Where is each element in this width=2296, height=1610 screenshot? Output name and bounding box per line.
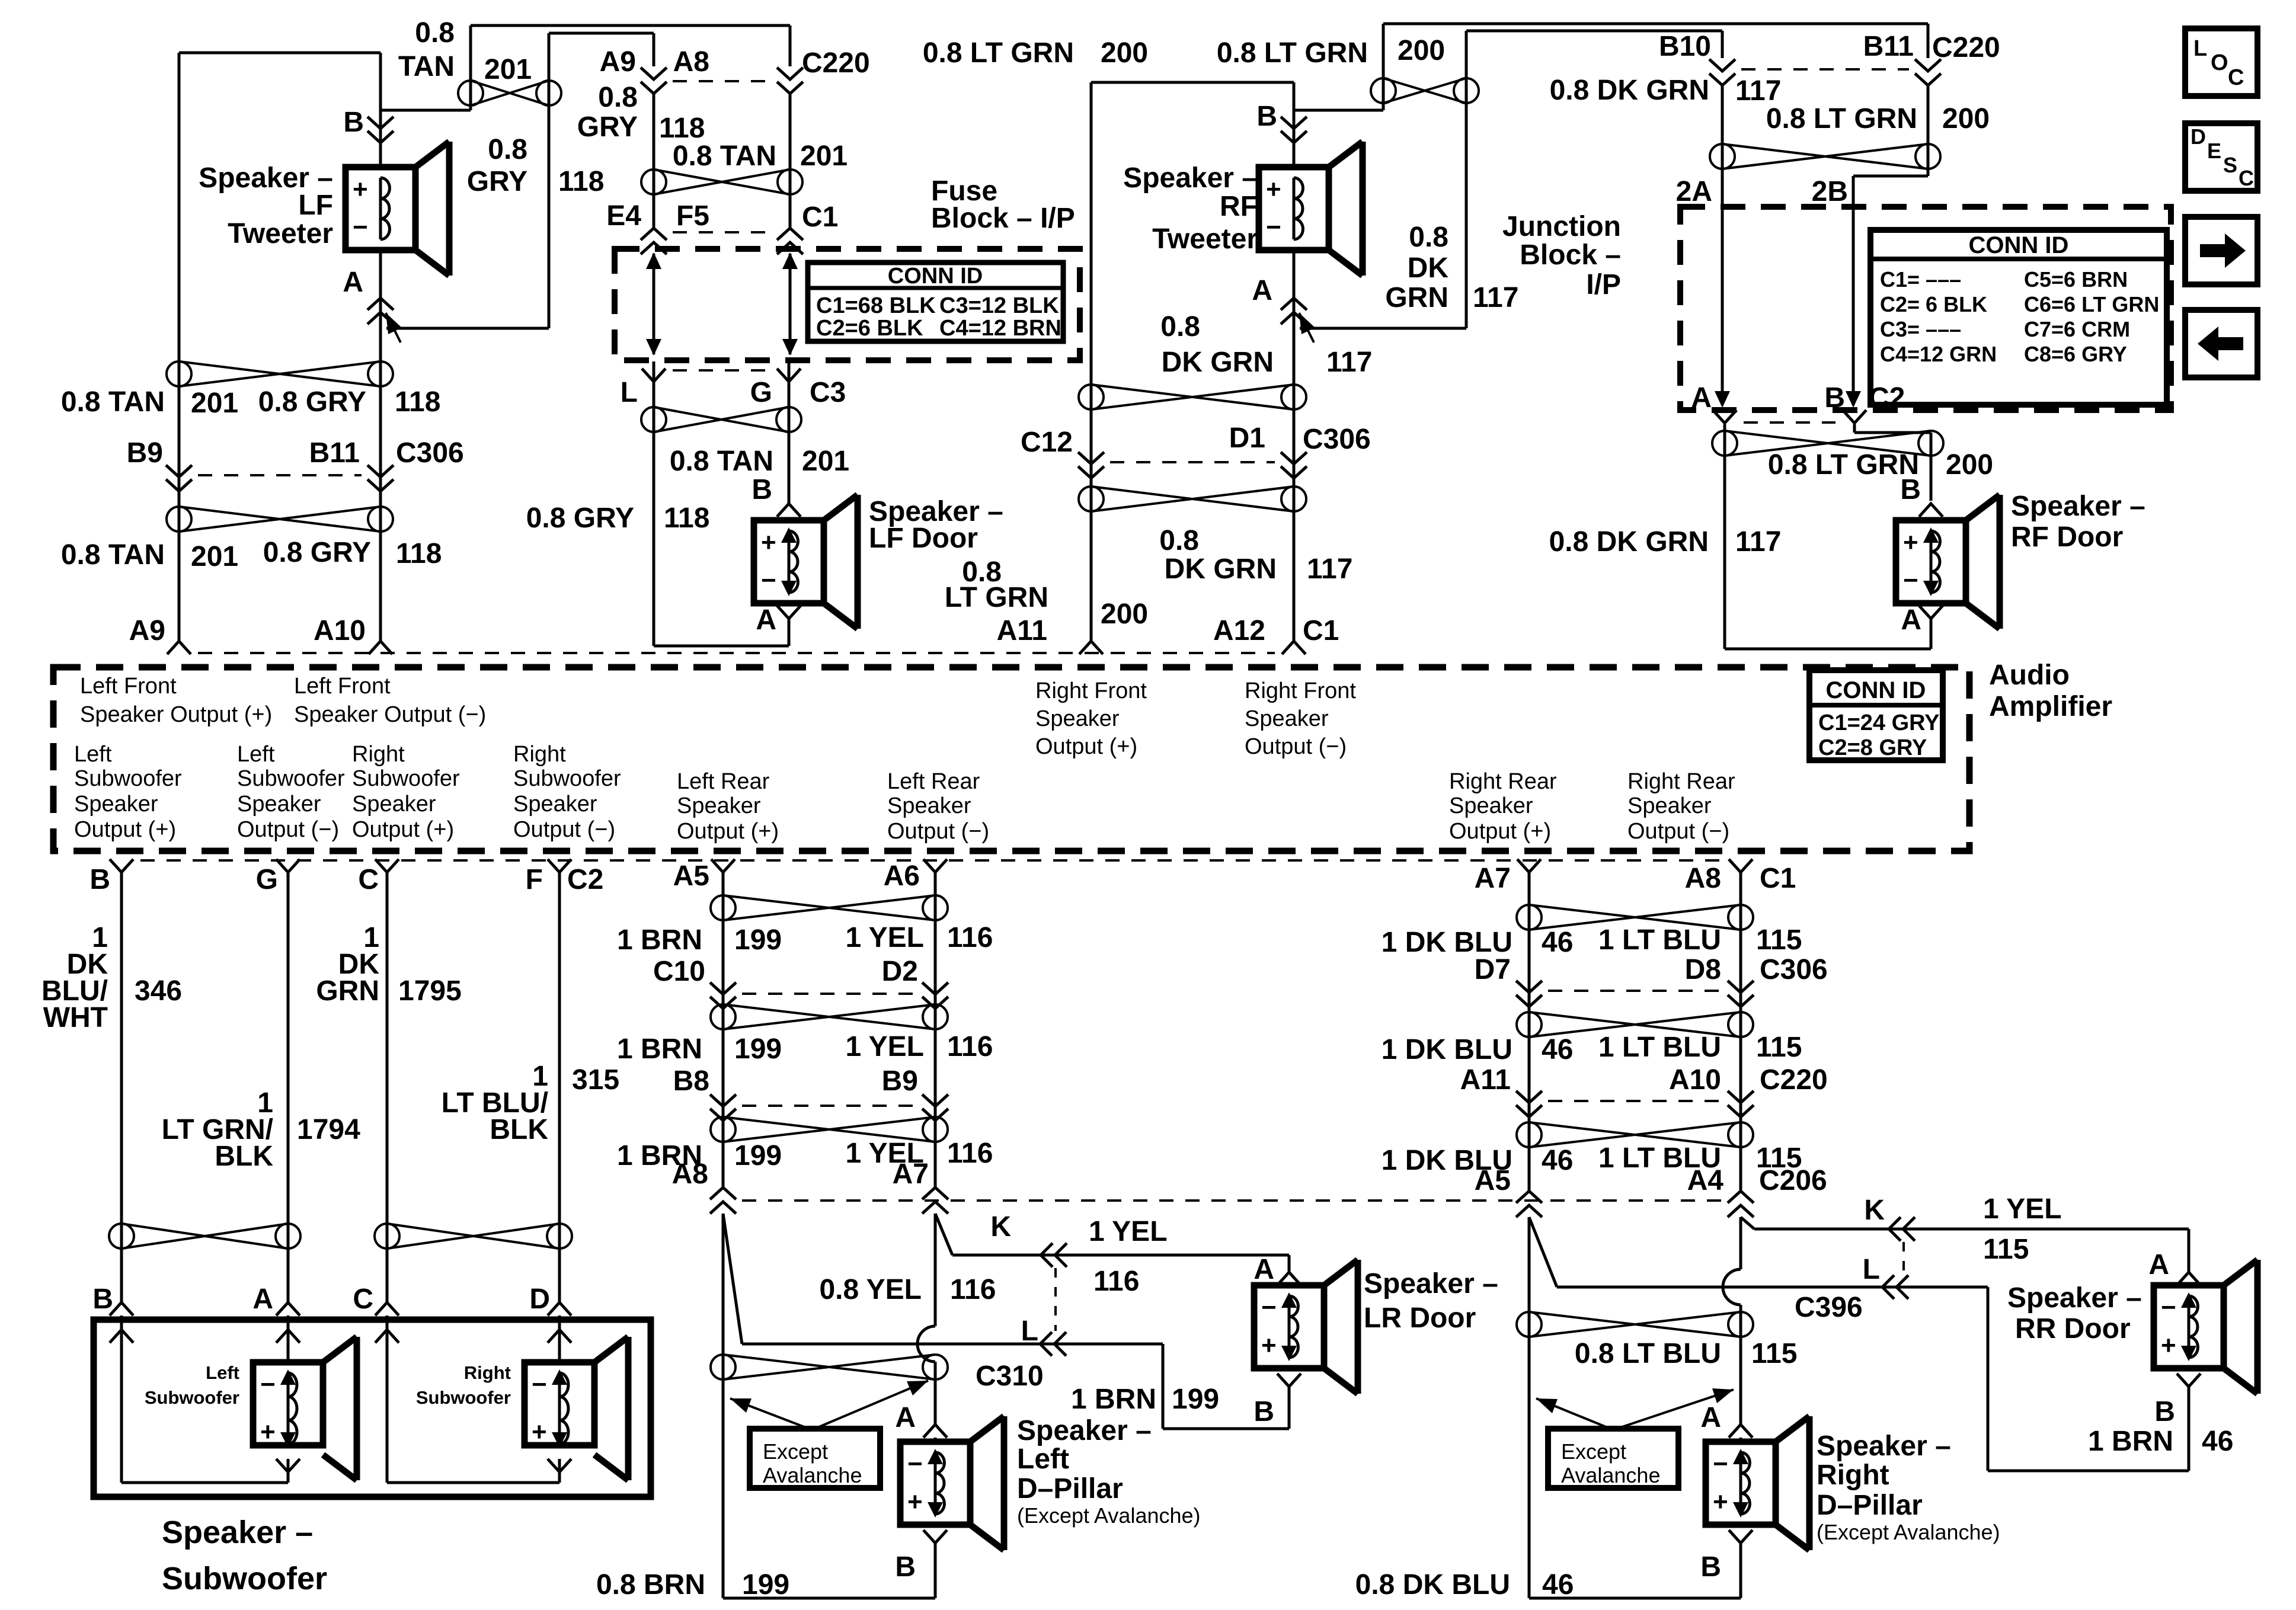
svg-text:RF: RF — [1220, 191, 1258, 222]
svg-text:Avalanche: Avalanche — [763, 1463, 862, 1487]
svg-text:0.8 GRY: 0.8 GRY — [258, 386, 366, 418]
svg-text:115: 115 — [1751, 1338, 1797, 1369]
svg-text:A10: A10 — [314, 615, 366, 646]
wire YEL down to D-pillar — [934, 1214, 937, 1425]
svg-text:Except: Except — [1561, 1439, 1626, 1464]
svg-text:+: + — [2161, 1331, 2176, 1360]
svg-text:C2: C2 — [567, 864, 603, 895]
svg-text:C12: C12 — [1021, 427, 1073, 458]
wire A8 to fuse F5 (0.8 TAN 201) — [789, 94, 792, 228]
svg-text:S: S — [2223, 153, 2237, 177]
svg-text:C2: C2 — [1869, 382, 1905, 414]
wire L to LF door A (0.8 GRY 118) — [654, 382, 789, 646]
svg-text:C310: C310 — [976, 1361, 1044, 1392]
svg-text:Left: Left — [1017, 1443, 1069, 1475]
CONN ID table junction block — [1870, 230, 2167, 405]
wire branch LF - to C220 A9 — [386, 33, 654, 328]
fuse block internal wire F5-G — [782, 252, 798, 356]
svg-text:Speaker –: Speaker – — [1364, 1268, 1498, 1299]
svg-text:117: 117 — [1326, 347, 1372, 378]
label 1 DK GRN 1795 — [316, 922, 461, 1007]
amp label right rear - — [1627, 769, 1735, 844]
amp label right rear + — [1449, 769, 1557, 844]
svg-text:Output (+): Output (+) — [1035, 734, 1137, 759]
label C310 — [976, 1361, 1044, 1392]
svg-text:Left Front: Left Front — [80, 674, 177, 699]
left arrow box — [2185, 310, 2257, 377]
label L right — [1863, 1254, 1880, 1285]
svg-text:201: 201 — [800, 140, 848, 172]
connector pin A LF tweeter — [343, 267, 394, 324]
svg-text:C306: C306 — [1760, 954, 1828, 985]
svg-text:115: 115 — [1756, 924, 1802, 956]
svg-text:B11: B11 — [1863, 31, 1914, 62]
labels row2 RR — [1382, 1032, 1802, 1065]
svg-text:1795: 1795 — [398, 975, 462, 1007]
label Speaker - LR Door — [1364, 1268, 1498, 1334]
svg-text:Output (−): Output (−) — [237, 817, 339, 842]
svg-text:K: K — [990, 1211, 1011, 1243]
svg-text:1 YEL: 1 YEL — [845, 1031, 924, 1062]
svg-text:+: + — [907, 1487, 923, 1516]
speaker RR Door — [2154, 1260, 2257, 1394]
svg-text:L: L — [1863, 1254, 1880, 1285]
svg-text:46: 46 — [1542, 1145, 1573, 1176]
svg-text:Subwoofer: Subwoofer — [237, 766, 345, 791]
svg-text:C3= –––: C3= ––– — [1880, 317, 1961, 341]
svg-text:C: C — [2239, 166, 2254, 190]
wire sub D inside — [548, 1315, 571, 1362]
svg-text:I/P: I/P — [1586, 269, 1621, 300]
svg-text:201: 201 — [802, 446, 849, 477]
svg-text:GRN: GRN — [1385, 282, 1448, 313]
svg-text:199: 199 — [734, 1033, 782, 1065]
svg-text:L: L — [2193, 36, 2207, 61]
speaker LR Door — [1254, 1260, 1358, 1394]
svg-text:B: B — [2154, 1396, 2175, 1427]
svg-text:Amplifier: Amplifier — [1989, 691, 2112, 722]
speaker Right Subwoofer — [525, 1337, 628, 1480]
labels row1 RR — [1382, 924, 1802, 958]
label Speaker - Subwoofer — [162, 1515, 327, 1596]
amp pins A9 A10 — [129, 615, 1275, 654]
svg-text:−: − — [1713, 1449, 1728, 1478]
wire left rear - (1 YEL 116) — [934, 873, 937, 1188]
audio amplifier dashed box — [53, 667, 1969, 851]
svg-text:GRY: GRY — [467, 166, 527, 197]
svg-text:C: C — [353, 1283, 373, 1315]
svg-text:Output (+): Output (+) — [677, 819, 779, 844]
svg-text:CONN ID: CONN ID — [888, 264, 983, 289]
svg-text:0.8: 0.8 — [1160, 311, 1200, 343]
label 0.8 LT GRN 200 branch top — [1217, 35, 1445, 69]
svg-text:1 LT BLU: 1 LT BLU — [1598, 1032, 1721, 1063]
svg-text:LF: LF — [298, 190, 333, 221]
twisted pair D-pillar right — [1517, 1312, 1753, 1337]
svg-text:DK GRN: DK GRN — [1162, 347, 1274, 378]
svg-text:C1= –––: C1= ––– — [1880, 267, 1961, 292]
svg-text:200: 200 — [1101, 37, 1148, 69]
twisted pair RR 2 — [1517, 1012, 1753, 1037]
svg-text:0.8 LT GRN: 0.8 LT GRN — [923, 37, 1074, 69]
svg-text:1 BRN: 1 BRN — [1071, 1384, 1156, 1415]
svg-text:200: 200 — [1398, 35, 1445, 66]
svg-text:D–Pillar: D–Pillar — [1817, 1490, 1923, 1521]
svg-text:Right Front: Right Front — [1245, 678, 1356, 703]
label 0.8 GRY 118 under A9 — [577, 82, 705, 144]
twisted pair RF pair lower — [1079, 486, 1306, 511]
svg-text:Subwoofer: Subwoofer — [74, 766, 182, 791]
svg-text:117: 117 — [1473, 282, 1518, 313]
wire L row to LR door B — [1163, 1344, 1289, 1429]
svg-text:B: B — [1256, 101, 1277, 132]
amp pins A7 A8 C1 — [1475, 859, 1796, 894]
svg-text:Speaker Output (+): Speaker Output (+) — [80, 702, 272, 727]
svg-text:1 BRN: 1 BRN — [617, 1033, 702, 1065]
svg-text:Speaker: Speaker — [1035, 706, 1120, 731]
svg-text:B: B — [89, 864, 110, 895]
speaker Left D-Pillar — [900, 1416, 1004, 1550]
label 0.8 DK GRN 117 door — [1549, 526, 1782, 558]
label 0.8 TAN 201 lower row 2 — [61, 539, 238, 572]
svg-text:0.8 LT BLU: 0.8 LT BLU — [1575, 1338, 1721, 1369]
svg-text:1 YEL: 1 YEL — [1089, 1216, 1168, 1247]
svg-text:Tweeter: Tweeter — [228, 218, 333, 249]
svg-text:46: 46 — [1542, 927, 1573, 958]
connector pin B RR door — [2154, 1374, 2201, 1427]
label 0.8 GRY 118 lower row 2 — [263, 537, 442, 569]
wire LF tweeter - down to amp A10 — [379, 250, 382, 641]
connector L right — [1882, 1275, 1908, 1299]
svg-text:TAN: TAN — [398, 51, 455, 82]
svg-text:Speaker: Speaker — [1449, 793, 1533, 818]
label 0.8 LT GRN 200 lower — [945, 556, 1148, 630]
svg-text:46: 46 — [1542, 1569, 1574, 1601]
svg-text:Left: Left — [74, 742, 112, 767]
svg-text:0.8 TAN: 0.8 TAN — [61, 539, 165, 571]
arrows except avalanche left — [730, 1381, 928, 1430]
except avalanche box left — [750, 1429, 880, 1488]
svg-text:C3=12 BLK: C3=12 BLK — [939, 293, 1059, 318]
amp pins B G C F C2 row — [89, 859, 1722, 895]
svg-text:0.8: 0.8 — [488, 134, 527, 165]
svg-text:118: 118 — [396, 538, 442, 569]
svg-text:B: B — [752, 474, 772, 505]
svg-text:B: B — [343, 107, 364, 138]
amp label left rear + — [677, 769, 779, 844]
label Speaker - RR Door — [2007, 1282, 2142, 1345]
junction block pins 2A 2B — [1676, 176, 1848, 207]
twisted pair right subwoofer — [375, 1224, 572, 1249]
label 0.8 TAN 201 door — [670, 446, 849, 477]
svg-text:115: 115 — [1983, 1234, 2029, 1265]
connector C306 pins C12 D1 — [1021, 422, 1371, 478]
svg-text:LR Door: LR Door — [1364, 1302, 1476, 1334]
svg-text:346: 346 — [135, 975, 182, 1007]
CONN ID table fuse block — [808, 263, 1063, 341]
svg-text:1 YEL: 1 YEL — [1983, 1193, 2062, 1225]
svg-text:DK: DK — [1408, 252, 1449, 284]
svg-text:D2: D2 — [882, 956, 918, 987]
svg-text:0.8 LT GRN: 0.8 LT GRN — [1217, 37, 1368, 69]
svg-text:A11: A11 — [997, 615, 1047, 646]
svg-text:C4=12 GRN: C4=12 GRN — [1880, 342, 1997, 366]
svg-text:Junction: Junction — [1502, 211, 1621, 242]
svg-text:Speaker Output (−): Speaker Output (−) — [294, 702, 486, 727]
twisted pair above fuse block — [641, 169, 802, 194]
connector C2 pins A B — [1691, 382, 1905, 423]
svg-text:A: A — [1253, 1254, 1274, 1285]
label 0.8 GRY 118 lower row 1 — [258, 386, 441, 418]
twisted pair left subwoofer — [109, 1224, 300, 1249]
speaker Left Subwoofer — [253, 1337, 357, 1480]
svg-text:C3: C3 — [810, 377, 846, 408]
svg-text:B9: B9 — [882, 1065, 918, 1097]
svg-text:C5=6 BRN: C5=6 BRN — [2024, 267, 2128, 292]
svg-text:46: 46 — [2202, 1426, 2233, 1457]
svg-text:199: 199 — [734, 1140, 782, 1172]
svg-text:Right Rear: Right Rear — [1627, 769, 1735, 794]
connector L left — [1040, 1332, 1066, 1356]
connector C220 pins A9 A8 — [600, 46, 870, 94]
svg-text:A7: A7 — [1475, 863, 1511, 894]
twisted pair RR 1 — [1517, 905, 1753, 930]
label Speaker - RF Door — [2011, 491, 2145, 553]
svg-text:K: K — [1864, 1195, 1885, 1226]
label Fuse Block - I/P — [931, 175, 1075, 234]
label 0.8 DK GRN 117 branch — [1385, 222, 1518, 313]
hop YEL over L row — [917, 1326, 935, 1362]
twisted pair RR 3 — [1517, 1122, 1753, 1147]
wire RF front + (0.8 LT GRN 200) from amp A11 to tweeter B — [1091, 82, 1294, 641]
label Speaker - RF Tweeter — [1123, 162, 1258, 255]
svg-text:C1: C1 — [1760, 863, 1796, 894]
svg-text:Right: Right — [1817, 1459, 1889, 1491]
wire A4 diagonal to K row — [1741, 1217, 2189, 1272]
svg-text:Except: Except — [763, 1439, 828, 1464]
svg-text:Speaker –: Speaker – — [1017, 1415, 1152, 1446]
wire left subwoofer + (1 DK BLU/WHT 346) — [120, 873, 123, 1302]
svg-text:Tweeter: Tweeter — [1152, 223, 1258, 255]
label Junction Block - I/P — [1502, 211, 1621, 300]
svg-text:118: 118 — [659, 113, 705, 144]
svg-text:RF Door: RF Door — [2011, 521, 2123, 553]
svg-text:C4=12 BRN: C4=12 BRN — [939, 316, 1061, 341]
svg-text:D8: D8 — [1685, 954, 1721, 985]
amp label right subwoofer - — [513, 742, 621, 842]
svg-text:115: 115 — [1756, 1032, 1802, 1063]
svg-text:(Except Avalanche): (Except Avalanche) — [1817, 1520, 2000, 1544]
svg-text:D: D — [2191, 124, 2206, 149]
connector pin B left D-pillar — [895, 1530, 947, 1598]
amp label right front + — [1035, 678, 1147, 759]
label 1 DK BLU/WHT 346 — [41, 922, 182, 1033]
svg-text:L: L — [1021, 1315, 1038, 1347]
wire C2-A down (0.8 DK GRN 117) — [1725, 424, 1931, 649]
wire LT BLU down to D-pillar — [1739, 1217, 1742, 1425]
svg-text:1 LT BLU: 1 LT BLU — [1598, 924, 1721, 956]
svg-text:Output (+): Output (+) — [352, 817, 454, 842]
svg-text:GRN: GRN — [316, 975, 379, 1007]
svg-text:−: − — [907, 1449, 923, 1478]
svg-text:B9: B9 — [127, 437, 163, 469]
svg-text:E4: E4 — [606, 200, 641, 232]
wire branch RF + to B11 — [1294, 24, 1928, 110]
svg-text:C: C — [2228, 65, 2244, 90]
svg-text:Subwoofer: Subwoofer — [352, 766, 460, 791]
svg-text:CONN ID: CONN ID — [1969, 232, 2069, 258]
twisted pair junction top — [1710, 144, 1940, 169]
svg-text:C1: C1 — [1303, 615, 1339, 646]
junction internal wire 2A-A — [1715, 207, 1730, 408]
label Left Subwoofer — [145, 1362, 239, 1408]
svg-text:C2=8 GRY: C2=8 GRY — [1818, 735, 1927, 760]
twisted pair LF pair upper — [167, 361, 393, 386]
svg-text:A10: A10 — [1669, 1064, 1721, 1096]
wire A5 diagonal to L row — [1529, 1217, 1988, 1287]
svg-text:2A: 2A — [1676, 176, 1712, 207]
svg-text:118: 118 — [395, 386, 440, 418]
svg-text:C1: C1 — [802, 201, 838, 233]
arrows except avalanche right — [1536, 1388, 1734, 1430]
label 1 BRN 199 door branch — [1071, 1384, 1219, 1415]
label K left — [990, 1211, 1011, 1243]
svg-text:A4: A4 — [1687, 1165, 1724, 1196]
svg-text:1 BRN: 1 BRN — [617, 924, 702, 956]
svg-text:116: 116 — [947, 1031, 993, 1062]
svg-text:Subwoofer: Subwoofer — [162, 1561, 327, 1596]
svg-text:C8=6 GRY: C8=6 GRY — [2024, 342, 2127, 366]
svg-text:199: 199 — [734, 924, 782, 956]
svg-text:Output (−): Output (−) — [513, 817, 615, 842]
label 1 LT GRN/BLK 1794 — [162, 1087, 361, 1172]
fuse block I/P dashed box — [615, 249, 1080, 360]
connector pin B RF door — [1900, 474, 1943, 517]
svg-text:116: 116 — [947, 922, 993, 953]
amp pins A5 A6 — [673, 859, 947, 892]
svg-text:Speaker –: Speaker – — [2011, 491, 2145, 522]
svg-text:Speaker: Speaker — [513, 792, 597, 817]
svg-text:LF Door: LF Door — [869, 523, 978, 554]
speaker LF Tweeter — [346, 142, 449, 276]
wire A9 to fuse E4 (0.8 GRY 118) — [653, 94, 655, 228]
connector pin B right D-pillar — [1700, 1530, 1753, 1598]
svg-text:−: − — [761, 566, 776, 595]
connector pin B LF tweeter — [343, 107, 394, 143]
label 0.8 LT GRN 200 jb — [1766, 103, 1990, 135]
speaker RF Tweeter — [1259, 142, 1363, 276]
svg-text:Left Front: Left Front — [294, 674, 391, 699]
label 1 LT BLU/BLK 315 — [442, 1061, 620, 1145]
svg-text:RR Door: RR Door — [2015, 1313, 2131, 1345]
svg-text:+: + — [1266, 175, 1281, 204]
svg-text:F5: F5 — [676, 200, 709, 232]
connector pins B8 B9 — [673, 1065, 948, 1121]
svg-text:117: 117 — [1735, 75, 1781, 107]
junction arrow RF minus branch — [1299, 313, 1315, 343]
svg-text:GRY: GRY — [577, 111, 638, 143]
labels 1 BRN 199 1 YEL 116 row2 — [617, 1031, 993, 1065]
svg-text:C306: C306 — [1303, 424, 1371, 455]
svg-text:Speaker: Speaker — [1245, 706, 1329, 731]
wire sub C inside — [375, 1315, 525, 1483]
wire right subwoofer - (1 LT BLU/BLK 315) — [558, 873, 561, 1302]
wire right rear - (1 LT BLU 115) — [1739, 873, 1742, 1191]
twisted pair LF pair lower — [167, 507, 393, 532]
svg-text:0.8 LT GRN: 0.8 LT GRN — [1766, 103, 1917, 135]
label 0.8 DK BLU 46 bottom — [1355, 1569, 1574, 1601]
svg-text:A: A — [1700, 1402, 1721, 1433]
label 0.8 DK GRN 117 jb — [1550, 75, 1782, 107]
svg-text:201: 201 — [191, 541, 238, 572]
svg-text:G: G — [750, 377, 772, 408]
svg-text:Left Rear: Left Rear — [887, 769, 980, 794]
twisted pair fuse to door — [641, 407, 801, 432]
svg-text:2B: 2B — [1812, 176, 1848, 207]
wire BRN down to D-pillar bottom — [723, 1214, 935, 1598]
svg-text:Avalanche: Avalanche — [1561, 1463, 1660, 1487]
svg-text:0.8: 0.8 — [598, 82, 638, 113]
speaker LF Door — [754, 495, 858, 629]
svg-text:Speaker: Speaker — [1627, 793, 1712, 818]
svg-text:A: A — [1252, 275, 1272, 306]
svg-text:Left Rear: Left Rear — [677, 769, 770, 794]
svg-text:G: G — [256, 864, 278, 895]
svg-text:A8: A8 — [1685, 863, 1721, 894]
svg-text:Subwoofer: Subwoofer — [513, 766, 621, 791]
svg-text:D1: D1 — [1229, 422, 1265, 454]
svg-text:Speaker: Speaker — [677, 793, 761, 818]
svg-text:Speaker –: Speaker – — [162, 1515, 313, 1550]
wire RF door A down — [1930, 619, 1933, 649]
wire sub B inside — [110, 1315, 253, 1483]
label K right — [1864, 1195, 1885, 1226]
svg-text:B: B — [1900, 474, 1921, 505]
svg-text:DK GRN: DK GRN — [1165, 553, 1277, 585]
svg-text:C: C — [358, 864, 379, 895]
wire right rear + (1 DK BLU 46) — [1528, 873, 1531, 1191]
labels 1 BRN 199 1 YEL 116 row3 — [617, 1138, 993, 1172]
svg-text:199: 199 — [742, 1569, 789, 1601]
svg-text:−: − — [1903, 566, 1918, 595]
svg-text:A5: A5 — [1475, 1165, 1511, 1196]
label 0.8 LT GRN 200 door — [1768, 449, 1993, 481]
label Speaker - LF Tweeter — [199, 162, 333, 249]
svg-text:116: 116 — [950, 1274, 996, 1305]
label Audio Amplifier — [1989, 660, 2112, 722]
twisted pair LF branch — [458, 81, 561, 105]
svg-text:116: 116 — [947, 1138, 993, 1169]
wire DK BLU down to D-pillar bottom — [1529, 1217, 1741, 1598]
connector pin B LF door — [752, 474, 801, 517]
svg-text:B8: B8 — [673, 1065, 709, 1097]
svg-text:1 BRN: 1 BRN — [2088, 1426, 2173, 1457]
svg-text:116: 116 — [1093, 1266, 1139, 1297]
connector C220 pins B10 B11 — [1659, 31, 2000, 85]
svg-text:0.8 TAN: 0.8 TAN — [670, 446, 773, 477]
svg-text:A7: A7 — [893, 1158, 929, 1190]
label Speaker - Left D-Pillar — [1017, 1415, 1201, 1528]
labels 1 BRN 199 1 YEL 116 row1 — [617, 922, 993, 956]
wire branch LF + to C220 A8 — [380, 25, 790, 110]
svg-text:200: 200 — [1942, 103, 1990, 135]
svg-text:0.8 YEL: 0.8 YEL — [819, 1274, 922, 1305]
svg-text:+: + — [1261, 1331, 1277, 1360]
svg-text:Speaker –: Speaker – — [2007, 1282, 2142, 1314]
dashed link K-L left — [1054, 1268, 1057, 1331]
svg-text:A6: A6 — [884, 860, 920, 892]
twisted pair LR 2 — [711, 1004, 948, 1029]
